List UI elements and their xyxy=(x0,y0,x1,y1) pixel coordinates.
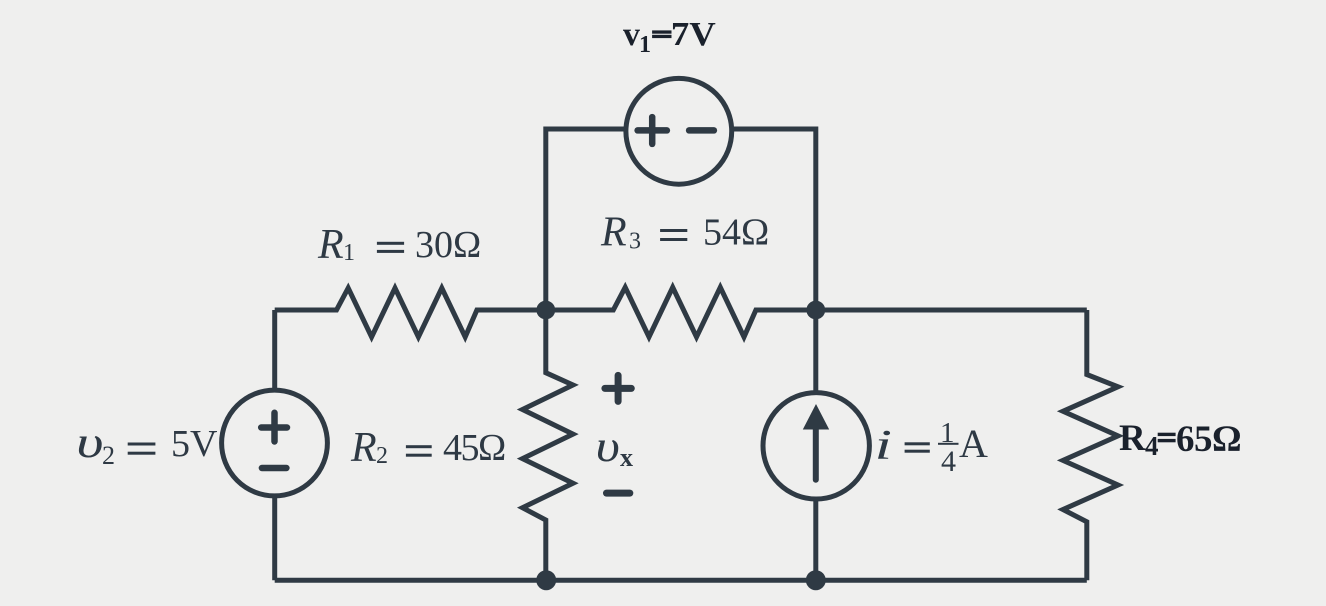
svg-text:υ: υ xyxy=(596,422,620,471)
svg-text:v: v xyxy=(623,16,640,53)
svg-text:R: R xyxy=(317,222,344,268)
svg-text:1: 1 xyxy=(639,32,651,58)
svg-text:45Ω: 45Ω xyxy=(443,427,505,469)
svg-text:υ: υ xyxy=(76,418,103,467)
svg-text:5V: 5V xyxy=(171,423,218,465)
svg-text:2: 2 xyxy=(376,443,388,469)
svg-text:x: x xyxy=(620,443,633,472)
svg-text:R: R xyxy=(350,425,377,471)
svg-text:1: 1 xyxy=(343,240,355,266)
svg-text:A: A xyxy=(959,421,988,466)
svg-text:4: 4 xyxy=(1145,431,1159,461)
svg-text:7V: 7V xyxy=(671,14,716,52)
svg-text:R: R xyxy=(600,210,627,256)
svg-text:4: 4 xyxy=(941,445,956,478)
svg-text:30Ω: 30Ω xyxy=(415,224,481,266)
svg-text:54Ω: 54Ω xyxy=(703,212,769,254)
svg-text:i: i xyxy=(875,421,893,468)
svg-text:2: 2 xyxy=(102,441,115,470)
svg-text:65Ω: 65Ω xyxy=(1176,419,1241,460)
svg-text:3: 3 xyxy=(629,229,641,255)
svg-text:R: R xyxy=(1119,418,1147,459)
